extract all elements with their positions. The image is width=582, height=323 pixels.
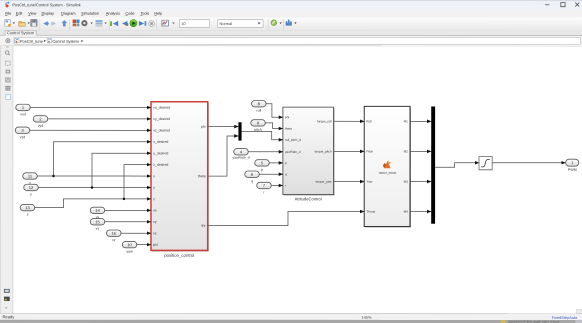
svg-text:q: q <box>285 172 287 176</box>
svg-text:theta: theta <box>198 174 206 178</box>
svg-text:Code: Code <box>125 12 134 16</box>
svg-text:13: 13 <box>25 205 30 210</box>
svg-text:p: p <box>261 168 263 172</box>
svg-text:Control System: Control System <box>7 30 35 35</box>
svg-text:vz_desired: vz_desired <box>153 128 170 132</box>
svg-text:vy: vy <box>153 220 157 224</box>
svg-text:vy_desired: vy_desired <box>153 117 170 121</box>
svg-text:x: x <box>153 174 155 178</box>
svg-text:PosCtrl_tune: PosCtrl_tune <box>20 39 44 44</box>
svg-text:vz: vz <box>153 231 157 235</box>
svg-text:Edit: Edit <box>16 12 23 16</box>
svg-text:psi: psi <box>153 243 158 247</box>
svg-text:12: 12 <box>29 185 34 190</box>
svg-text:File: File <box>5 12 11 16</box>
svg-text:145%: 145% <box>361 315 371 320</box>
svg-text:yawRate_d: yawRate_d <box>233 156 250 160</box>
svg-text:z_desired: z_desired <box>153 163 168 167</box>
svg-text:z: z <box>153 197 155 201</box>
svg-text:yaw: yaw <box>126 250 133 254</box>
svg-text:y: y <box>153 186 155 190</box>
svg-text:phi: phi <box>201 125 206 129</box>
svg-text:Simulation: Simulation <box>81 12 99 16</box>
svg-text:Analysis: Analysis <box>106 12 120 16</box>
svg-text:14: 14 <box>95 208 100 213</box>
svg-text:FixedStepAuto: FixedStepAuto <box>552 315 578 320</box>
svg-text:q: q <box>251 179 253 183</box>
svg-text:yawRate_d: yawRate_d <box>285 150 301 154</box>
svg-text:15: 15 <box>95 219 100 224</box>
svg-text:vzd: vzd <box>20 135 26 139</box>
svg-text:Display: Display <box>42 12 55 16</box>
svg-text:16: 16 <box>112 231 117 236</box>
svg-text:position_control: position_control <box>164 253 194 258</box>
svg-text:M4: M4 <box>404 210 409 214</box>
svg-text:Ready: Ready <box>2 314 15 319</box>
svg-text:y: y <box>30 192 32 196</box>
svg-text:Help: Help <box>154 12 162 16</box>
svg-text:Tools: Tools <box>140 12 149 16</box>
svg-text:PosCtrl_tune/Control System -: PosCtrl_tune/Control System - Simulink <box>12 2 80 7</box>
svg-text:Pitch: Pitch <box>366 150 373 154</box>
svg-text:phi: phi <box>285 115 289 119</box>
svg-text:M2: M2 <box>404 150 409 154</box>
svg-text:torque_roll: torque_roll <box>317 119 332 123</box>
svg-text:roll: roll <box>256 109 261 113</box>
svg-text:Roll: Roll <box>366 119 372 123</box>
svg-text:Diagram: Diagram <box>61 12 75 16</box>
svg-text:vx_desired: vx_desired <box>153 106 170 110</box>
svg-text:vy: vy <box>96 227 100 231</box>
svg-text:torque_yaw: torque_yaw <box>316 180 333 184</box>
svg-text:Yaw: Yaw <box>366 180 373 184</box>
svg-text:motor_mixer: motor_mixer <box>379 171 398 175</box>
svg-text:PWM: PWM <box>568 168 577 172</box>
svg-text:vz: vz <box>112 238 116 242</box>
svg-text:View: View <box>28 12 36 16</box>
svg-text:x_desired: x_desired <box>153 140 168 144</box>
svg-text:theta: theta <box>285 127 292 131</box>
svg-text:r: r <box>285 184 286 188</box>
svg-text:10: 10 <box>127 242 132 247</box>
svg-text:Normal: Normal <box>220 21 233 26</box>
svg-text:Control System: Control System <box>52 39 79 44</box>
svg-text:pitch: pitch <box>254 128 262 132</box>
svg-text:vxd: vxd <box>20 112 26 116</box>
svg-text:M3: M3 <box>404 180 409 184</box>
svg-text:Thrust: Thrust <box>366 210 375 214</box>
svg-text:p: p <box>285 161 287 165</box>
svg-text:M1: M1 <box>404 119 409 123</box>
svg-text:vyd: vyd <box>38 124 44 128</box>
svg-text:z: z <box>27 213 29 217</box>
svg-text:y_desired: y_desired <box>153 151 168 155</box>
svg-text:roll_pitch_d: roll_pitch_d <box>285 138 301 142</box>
svg-text:vx: vx <box>153 209 157 213</box>
svg-text:torque_pitch: torque_pitch <box>315 150 332 154</box>
svg-text:AttitudeControl: AttitudeControl <box>295 196 322 201</box>
